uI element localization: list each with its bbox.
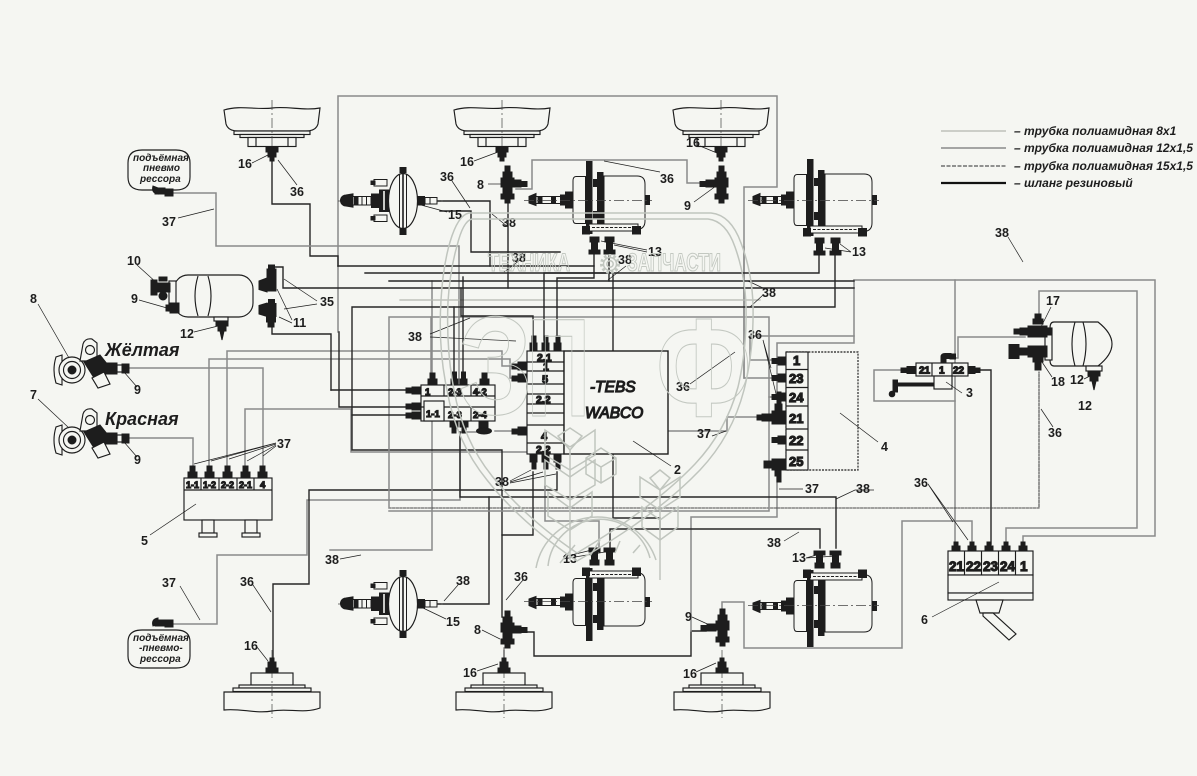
left manifold bottom studs xyxy=(450,421,468,433)
wire TEBS bottom nub2 to chamber BC left xyxy=(545,472,599,548)
legend line 12x1.5 xyxy=(941,147,1006,149)
leader 12 fit xyxy=(1084,375,1092,379)
leader 5 xyxy=(150,504,196,535)
svg-text:21: 21 xyxy=(949,559,965,574)
wire block4 port25 to T9 xyxy=(691,474,777,631)
legend group xyxy=(941,124,1193,190)
wire right bus drop to block4 port21 xyxy=(777,280,854,392)
svg-text:5: 5 xyxy=(141,534,148,548)
wire chamber TR right port down xyxy=(352,254,835,535)
wire dome2 loop to T-fittings xyxy=(516,160,708,189)
svg-text:36: 36 xyxy=(914,476,928,490)
leader 18 xyxy=(1040,359,1052,377)
TEBS port strip xyxy=(527,351,564,456)
leader 38 botbooster xyxy=(444,585,458,601)
svg-text:8: 8 xyxy=(30,292,37,306)
leader 38 block4low xyxy=(784,532,799,541)
manifold 5 xyxy=(184,478,272,537)
labels group xyxy=(30,136,1092,681)
wire block3 top to T17 xyxy=(955,337,1025,358)
top dome 3 xyxy=(673,100,769,150)
T-fitting 17 xyxy=(1014,314,1052,337)
svg-text:3: 3 xyxy=(966,386,973,400)
svg-text:37: 37 xyxy=(805,482,819,496)
wire block4 port1 loop xyxy=(750,336,854,360)
svg-text:11: 11 xyxy=(293,316,306,330)
svg-text:12: 12 xyxy=(180,327,194,341)
svg-text:16: 16 xyxy=(683,667,697,681)
ports 13 chamber top-right xyxy=(814,238,841,255)
svg-text:1-2: 1-2 xyxy=(203,480,216,490)
leader 38 left xyxy=(340,555,361,559)
fitting 18 xyxy=(1009,345,1047,371)
spring brake chamber top-center xyxy=(524,161,652,235)
wire red head to manifold xyxy=(128,438,193,472)
spring brake chamber bottom-right xyxy=(748,570,879,648)
svg-text:12: 12 xyxy=(1078,399,1092,413)
leader 9 T9bot xyxy=(692,617,714,627)
elbow fitting 11 bottom xyxy=(259,300,276,328)
leader 37 br xyxy=(779,488,803,490)
leader 7 red xyxy=(38,399,69,428)
leader 17 xyxy=(1040,307,1051,329)
wire T17 riser and loop to port24 xyxy=(1006,291,1137,544)
leader 38 38tl xyxy=(430,318,516,341)
TEBS left nubs xyxy=(512,362,527,435)
left manifold left ports xyxy=(406,387,421,419)
wire TEBS top nub3 xyxy=(557,266,594,340)
wire manifold port 1-2 to TEBS xyxy=(209,359,518,472)
wire left manifold stud riser 2 xyxy=(462,277,464,372)
wire TEBS port4 stub xyxy=(495,430,518,432)
svg-text:рессора: рессора xyxy=(139,654,181,665)
block 6 top nubs xyxy=(952,542,1027,551)
left manifold bottom elbow xyxy=(477,421,492,434)
svg-text:4: 4 xyxy=(260,480,266,491)
watermark shield inner xyxy=(448,219,746,553)
TEBS top nubs xyxy=(530,336,561,351)
wire bus 266 xyxy=(338,254,594,266)
wire manifold port 2-1 xyxy=(245,409,528,472)
svg-text:WABCO: WABCO xyxy=(585,405,643,422)
leader 3 xyxy=(946,382,962,393)
leader 36 botc xyxy=(506,580,523,600)
watermark wheel arc xyxy=(536,517,656,568)
svg-text:ЗАПЧАСТИ: ЗАПЧАСТИ xyxy=(627,249,721,277)
svg-text:36: 36 xyxy=(240,575,254,589)
fitting 16 dome3 xyxy=(715,147,727,161)
svg-text:1: 1 xyxy=(793,353,800,368)
svg-text:П: П xyxy=(527,289,590,446)
left manifold top studs xyxy=(428,372,489,385)
wire TEBS right to block4 port21 xyxy=(668,417,760,431)
ports 13 chamber bottom-right xyxy=(814,551,841,568)
leader 38 rr xyxy=(1008,237,1023,262)
wire left manifold left port 2 xyxy=(339,332,406,407)
components group xyxy=(54,100,1112,718)
leader 2 xyxy=(633,441,671,466)
leader 9 ystem xyxy=(124,372,137,387)
T-fitting 9 bottom xyxy=(701,609,729,646)
leader 16 dome1 xyxy=(252,155,268,163)
svg-text:8: 8 xyxy=(477,178,484,192)
svg-text:15: 15 xyxy=(446,615,460,629)
svg-text:38: 38 xyxy=(767,536,781,550)
leader 38 br xyxy=(836,490,874,499)
block 3 top elbow xyxy=(941,354,956,364)
svg-text:7: 7 xyxy=(30,388,37,402)
elbow fitting 11 top xyxy=(259,265,276,292)
leader 37 bot xyxy=(180,586,200,620)
leader 13 botr xyxy=(806,554,836,558)
wire 36 left drop xyxy=(440,211,560,252)
svg-text:13: 13 xyxy=(852,245,866,259)
leader 8 T8bot xyxy=(482,630,500,639)
wire left manifold left port 1 xyxy=(331,389,406,391)
leader 36 r xyxy=(1041,409,1053,427)
svg-text:– трубка полиамидная 8х1: – трубка полиамидная 8х1 xyxy=(1014,124,1177,138)
ports 13 chamber bottom-center xyxy=(589,548,615,565)
svg-text:-TEBS: -TEBS xyxy=(590,379,636,396)
brake booster 15 top xyxy=(338,167,446,235)
svg-text:4: 4 xyxy=(881,440,888,454)
svg-text:1-1: 1-1 xyxy=(426,409,440,420)
svg-text:2-1: 2-1 xyxy=(239,480,252,490)
coupling head red 7 xyxy=(54,409,129,458)
TEBS WABCO module 2 xyxy=(564,351,668,454)
legend line hose xyxy=(941,182,1006,184)
svg-text:23: 23 xyxy=(789,371,803,386)
svg-text:6: 6 xyxy=(921,613,928,627)
wire block6 port21 riser xyxy=(954,280,956,546)
leader 36 dome1 xyxy=(278,160,297,185)
svg-text:22: 22 xyxy=(789,433,803,448)
wire chamber TC right port drop xyxy=(608,254,610,281)
svg-text:9: 9 xyxy=(684,199,691,213)
wire elbow11 bottom xyxy=(272,325,331,390)
svg-text:1: 1 xyxy=(425,387,431,398)
brake booster 15 bottom xyxy=(338,570,446,638)
leader 10 xyxy=(137,265,158,284)
svg-text:2: 2 xyxy=(674,463,681,477)
wire booster top right port xyxy=(437,201,490,266)
svg-text:17: 17 xyxy=(1046,294,1060,308)
svg-text:24: 24 xyxy=(1000,559,1016,574)
svg-text:36: 36 xyxy=(660,172,674,186)
svg-text:1-1: 1-1 xyxy=(186,480,199,490)
svg-text:1: 1 xyxy=(939,366,945,377)
svg-text:2-2: 2-2 xyxy=(221,480,234,490)
svg-text:З: З xyxy=(458,287,533,444)
wire dark 497 xyxy=(460,432,836,548)
wire bus 300 xyxy=(400,299,760,301)
wire block4 port24 stub xyxy=(769,396,775,398)
svg-text:25: 25 xyxy=(789,454,803,469)
block 3 lever xyxy=(889,380,933,397)
leader 38 right xyxy=(748,281,763,307)
leader 8 yellow xyxy=(38,304,69,358)
wire main right bus to block6 port1 xyxy=(854,280,1155,544)
leader 16 bot2 xyxy=(477,664,498,671)
wire bus 508 xyxy=(389,372,1039,508)
stadium label bottom xyxy=(128,630,190,668)
top dome 1 xyxy=(224,100,320,150)
wire chamber BC right port to loop xyxy=(610,529,660,548)
leader 13 topc xyxy=(601,241,647,252)
fitting 16 bottom dome2 xyxy=(498,658,510,673)
svg-text:16: 16 xyxy=(463,666,477,680)
svg-text:21: 21 xyxy=(789,411,803,426)
spring brake chamber bottom-center xyxy=(524,568,652,642)
top dome 2 xyxy=(454,100,550,150)
wire lift-axle bottom xyxy=(174,432,478,624)
fitting 16 dome1 xyxy=(266,147,278,161)
svg-text:9: 9 xyxy=(134,453,141,467)
leader 15 top xyxy=(421,205,447,212)
wire left manifold stud riser 1 xyxy=(453,307,455,372)
wire x432 riser xyxy=(330,281,432,550)
leader 36 bot1 xyxy=(253,585,271,612)
spring brake chamber top-right xyxy=(748,159,879,237)
svg-text:38: 38 xyxy=(456,574,470,588)
wire T8 bottom branch xyxy=(517,631,706,656)
wire block4 port23 riser xyxy=(744,247,775,378)
svg-text:-пневмо-: -пневмо- xyxy=(139,643,183,654)
legend line 8x1 xyxy=(941,130,1006,132)
T-fitting 9 top xyxy=(700,166,728,203)
svg-text:10: 10 xyxy=(127,254,141,268)
svg-text:38: 38 xyxy=(995,226,1009,240)
TEBS bottom nubs xyxy=(530,454,561,469)
wire yellow head to manifold xyxy=(128,368,263,472)
svg-text:– шланг резиновый: – шланг резиновый xyxy=(1014,176,1133,190)
leader 15 bot xyxy=(421,607,446,619)
leader 36 booster xyxy=(452,181,470,208)
fitting 16 bottom dome1 xyxy=(266,658,278,673)
leader 36 tebs xyxy=(690,352,735,384)
svg-text:24: 24 xyxy=(789,390,804,405)
watermark gear xyxy=(602,256,619,273)
leader 9 tank xyxy=(139,300,167,308)
watermark wheat right xyxy=(640,470,680,580)
leader 38 topmid xyxy=(492,214,508,227)
svg-text:36: 36 xyxy=(514,570,528,584)
block 3 left port xyxy=(901,367,916,374)
block 3 right port xyxy=(968,367,980,374)
bottom dome 2 xyxy=(456,650,552,718)
coupling head yellow 8 xyxy=(54,339,129,388)
fitting 12 tank left xyxy=(216,321,228,340)
block 4 xyxy=(786,352,858,470)
leader 16 dome2 xyxy=(474,152,498,161)
leader 37 top xyxy=(178,209,214,218)
ports 13 chamber top-center xyxy=(589,237,615,254)
leader 16 bot1 xyxy=(257,647,268,661)
wire frame R1 xyxy=(389,317,769,511)
leader 16 bot3 xyxy=(696,663,716,672)
leader 9 rstem xyxy=(124,442,137,457)
svg-text:– трубка полиамидная 15х1,5: – трубка полиамидная 15х1,5 xyxy=(1014,159,1193,173)
svg-text:36: 36 xyxy=(1048,426,1062,440)
wire lift-axle top xyxy=(172,193,459,418)
svg-text:12: 12 xyxy=(1070,373,1084,387)
air tank left 12 xyxy=(169,275,253,321)
leader 13 botc xyxy=(563,549,611,559)
wire top rail xyxy=(338,96,777,378)
wire manifold port 2-2 to TEBS xyxy=(227,351,518,472)
wire bottom dome1 36 xyxy=(273,472,557,658)
manifold 5 top studs xyxy=(188,466,267,478)
air tank right 12 xyxy=(1045,322,1112,371)
leader 16 dome3 xyxy=(700,146,717,153)
wire bus 281 xyxy=(389,280,854,282)
leader 36 upper-right xyxy=(763,340,778,402)
svg-text:16: 16 xyxy=(238,157,252,171)
leader 9 T9 xyxy=(694,186,716,202)
bottom dome 1 xyxy=(224,650,320,718)
leader 12 tankl xyxy=(194,326,218,332)
wire dome1 drop xyxy=(272,160,338,266)
svg-text:36: 36 xyxy=(440,170,454,184)
svg-text:9: 9 xyxy=(134,383,141,397)
svg-text:16: 16 xyxy=(244,639,258,653)
wire TEBS bottom nub1 to T8 xyxy=(502,472,533,617)
svg-text:35: 35 xyxy=(320,295,334,309)
svg-text:9: 9 xyxy=(685,610,692,624)
svg-text:Ф: Ф xyxy=(656,289,752,446)
leader 36 rightmid xyxy=(928,484,968,540)
T-fitting 8 top xyxy=(501,166,527,203)
wire T9 bottom to block6 xyxy=(722,521,972,648)
bottom dome 3 xyxy=(674,650,770,718)
leader 37 tebswire xyxy=(712,431,726,436)
leader 13 topr xyxy=(825,244,851,252)
wire T8 dome2 drop to bus xyxy=(507,201,509,288)
block 4 port 21 elbow xyxy=(757,392,786,424)
svg-text:13: 13 xyxy=(792,551,806,565)
svg-text:21: 21 xyxy=(919,366,931,377)
wire block3 right to block6 port23 xyxy=(974,370,991,544)
block 4 port 25 elbow xyxy=(764,459,786,482)
wire left manifold stud riser 3 xyxy=(430,317,432,373)
svg-text:22: 22 xyxy=(953,366,965,377)
block 6 xyxy=(948,551,1033,640)
watermark wheat left xyxy=(545,428,595,560)
wire block3 left to block6 port21 xyxy=(874,370,955,401)
legend line 15x1.5 xyxy=(941,165,1006,167)
leader 4 xyxy=(840,413,878,442)
wire bus 288 elbow11 top xyxy=(271,267,854,288)
leader 38 bus1 xyxy=(504,260,520,272)
T-fitting 8 bottom xyxy=(501,611,527,648)
leader 36 top rail xyxy=(604,161,660,172)
svg-text:37: 37 xyxy=(162,576,176,590)
leader 37 fan xyxy=(194,443,276,464)
leader 38 bus2 xyxy=(608,266,626,280)
svg-text:Жёлтая: Жёлтая xyxy=(104,340,180,360)
svg-text:16: 16 xyxy=(686,136,700,150)
leader 11 xyxy=(277,289,292,323)
svg-text:18: 18 xyxy=(1051,375,1065,389)
wires group xyxy=(128,96,1155,658)
stadium elbow top xyxy=(153,186,173,196)
leader 38 botnubs xyxy=(510,470,556,483)
svg-text:пневмо: пневмо xyxy=(143,163,180,174)
svg-text:38: 38 xyxy=(502,216,516,230)
watermark cube xyxy=(586,448,616,483)
fitting 16 dome2 xyxy=(496,147,508,161)
leader 6 xyxy=(932,582,999,617)
wire left manifold left port 3 xyxy=(352,414,406,416)
svg-text:38: 38 xyxy=(762,286,776,300)
wire booster bottom right port xyxy=(437,497,489,604)
stadium label top xyxy=(128,150,190,190)
svg-text:1: 1 xyxy=(1020,559,1028,574)
fitting 16 bottom dome3 xyxy=(716,658,728,673)
svg-text:рессора: рессора xyxy=(139,174,181,185)
svg-text:38: 38 xyxy=(856,482,870,496)
svg-text:9: 9 xyxy=(131,292,138,306)
svg-text:38: 38 xyxy=(408,330,422,344)
watermark group xyxy=(440,213,753,580)
svg-text:Красная: Красная xyxy=(105,409,179,429)
fitting 12 tank right xyxy=(1088,371,1100,390)
svg-text:37: 37 xyxy=(162,215,176,229)
fitting 10 tank left xyxy=(151,277,170,300)
svg-text:36: 36 xyxy=(290,185,304,199)
svg-text:8: 8 xyxy=(474,623,481,637)
block 4 port nubs xyxy=(772,357,786,444)
svg-text:38: 38 xyxy=(325,553,339,567)
svg-text:16: 16 xyxy=(460,155,474,169)
left manifold block xyxy=(421,385,495,421)
svg-text:23: 23 xyxy=(983,559,999,574)
fitting 9 tank left xyxy=(166,303,179,313)
wire bottom dome2 drop xyxy=(503,648,505,658)
leader 35 xyxy=(284,279,317,309)
svg-text:37: 37 xyxy=(277,437,291,451)
wire TEBS top nub2 long loop to chamber BR xyxy=(544,273,820,548)
svg-text:– трубка полиамидная 12х1,5: – трубка полиамидная 12х1,5 xyxy=(1014,141,1193,155)
svg-text:22: 22 xyxy=(966,559,981,574)
wire bus 281 xyxy=(365,254,819,273)
leader 8 T8 xyxy=(488,183,501,185)
block 3 valve xyxy=(916,363,968,389)
stadium elbow bottom xyxy=(153,618,173,627)
wire TEBS top nub1 xyxy=(461,288,533,340)
svg-text:ТЕХНИКА: ТЕХНИКА xyxy=(488,249,570,277)
watermark shield outer xyxy=(440,213,753,561)
